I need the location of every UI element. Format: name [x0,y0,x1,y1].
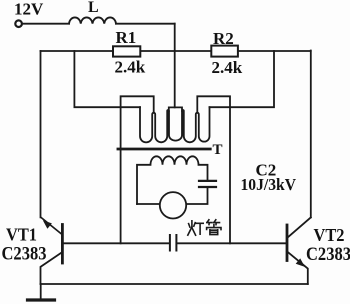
svg-text:2.4k: 2.4k [212,58,243,77]
transistor VT1 emitter lead with arrow [41,217,62,234]
node 12V terminal [15,20,22,27]
wire right rail [310,51,312,218]
resistor R2 [211,46,238,57]
wire VT2 base line [177,242,285,244]
ground [40,284,42,299]
wire left feedback wall to VT1 base [121,96,154,243]
svg-text:R1: R1 [116,28,137,47]
wire top from terminal to inductor [22,23,69,25]
wire from R1 left node down to primary left end [74,51,140,107]
svg-text:2.4k: 2.4k [115,57,146,76]
wire VT1 base line [64,242,169,244]
wire lamp loop bottom left [137,203,160,205]
transistor VT1 collector lead [41,252,63,284]
transistor VT2 collector lead [288,217,311,237]
transformer T center tap bar [169,107,182,111]
wire lamp loop right side below capacitor [186,188,207,204]
resistor R1 [113,46,140,56]
svg-text:C2383: C2383 [2,245,47,265]
wire main horizontal rail y=51 [41,50,311,52]
inductor L [69,17,116,23]
svg-text:C2383: C2383 [306,245,350,265]
transistor VT2 bar [286,225,289,261]
lamp label 灯管 (drawn strokes) [188,220,221,235]
wire right feedback wall to VT2 base [197,96,230,243]
svg-text:L: L [88,0,99,16]
transistor VT2 emitter lead with arrow [287,251,308,284]
wire bottom rail [41,283,308,285]
svg-text:VT1: VT1 [6,225,37,245]
base coupling capacitor [169,235,171,251]
wire left rail [40,51,42,217]
transformer T secondary winding and lamp loop [137,156,208,204]
svg-text:10J/3kV: 10J/3kV [241,175,297,194]
svg-text:12V: 12V [14,0,44,18]
transformer T primary winding [140,107,210,142]
wire center tap vertical [174,24,176,108]
wire from primary right end up to R2 right node [210,51,275,107]
svg-text:VT2: VT2 [314,225,345,245]
transformer T core [118,148,210,151]
svg-text:R2: R2 [213,29,234,48]
transistor VT1 bar [61,225,64,264]
wire top from inductor to center tap corner [116,23,175,25]
capacitor in lamp loop [199,180,216,182]
lamp tube circle [160,192,186,218]
svg-text:T: T [213,142,223,158]
